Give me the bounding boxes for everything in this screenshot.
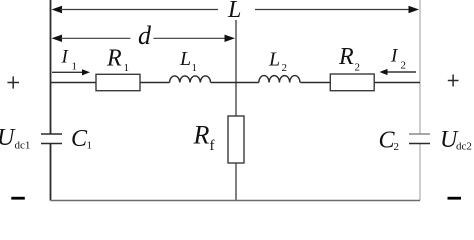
dimension L: line right segment <box>255 9 410 11</box>
svg-text:1: 1 <box>87 140 93 152</box>
svg-text:R: R <box>338 44 354 70</box>
svg-text:I: I <box>61 46 70 67</box>
polarity - right <box>448 197 462 200</box>
wire: R1 to L1 <box>140 82 170 84</box>
left rail (node A, upper) <box>50 0 52 134</box>
dimension d: right arrowhead <box>225 35 236 42</box>
svg-text:dc1: dc1 <box>15 140 31 152</box>
dimension d: left arrowhead <box>52 35 63 42</box>
svg-text:L: L <box>268 48 280 70</box>
svg-text:1: 1 <box>192 62 198 74</box>
right rail (node B, lower) <box>419 144 421 201</box>
center rail (node M, upper) <box>235 20 237 116</box>
svg-text:dc2: dc2 <box>456 141 472 153</box>
resistor R1 <box>96 74 140 90</box>
polarity + right <box>448 80 459 82</box>
dimension L: left arrowhead <box>52 6 63 13</box>
svg-text:1: 1 <box>72 61 78 73</box>
svg-text:L: L <box>179 48 191 70</box>
svg-text:2: 2 <box>401 60 407 72</box>
svg-text:I: I <box>390 46 399 67</box>
wire: L2 to R2 <box>301 82 331 84</box>
wire: R2 to right rail <box>374 82 420 84</box>
dimension d: line right segment <box>153 37 226 39</box>
inductor L1 <box>170 76 211 83</box>
svg-text:2: 2 <box>355 62 361 74</box>
svg-text:1: 1 <box>124 62 130 74</box>
right rail (node B, upper) <box>419 0 421 134</box>
polarity + left <box>7 82 19 84</box>
svg-text:f: f <box>210 138 215 154</box>
dimension L: line left segment <box>60 9 218 11</box>
resistor R2 <box>330 74 374 91</box>
svg-text:2: 2 <box>282 62 288 74</box>
wire: bottom bus <box>51 200 421 202</box>
resistor Rf <box>228 116 244 163</box>
svg-text:2: 2 <box>394 141 400 153</box>
dimension L: right arrowhead <box>409 6 420 13</box>
center rail (node M, lower) <box>235 163 237 201</box>
dimension d: line left segment <box>60 37 130 39</box>
svg-text:L: L <box>227 0 241 23</box>
svg-text:C: C <box>71 126 88 152</box>
capacitor C1 <box>41 133 62 135</box>
current arrow I2 <box>386 71 416 73</box>
polarity - left <box>11 197 24 200</box>
wire: L1 to L2 across center <box>211 82 259 84</box>
inductor L2 <box>259 76 300 83</box>
svg-text:d: d <box>138 21 152 50</box>
svg-text:R: R <box>106 46 122 72</box>
capacitor C2 <box>409 133 430 135</box>
current arrow I1 <box>52 71 84 73</box>
left rail (node A, lower) <box>50 144 52 201</box>
svg-text:R: R <box>193 121 210 150</box>
wire: main bus left <box>51 82 97 84</box>
